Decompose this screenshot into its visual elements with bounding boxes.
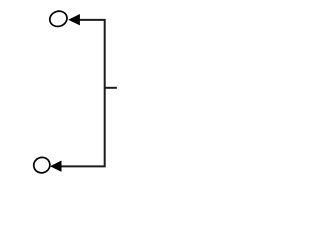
arrowhead top xyxy=(68,14,80,25)
node bottom ellipse xyxy=(32,155,52,175)
tick on vertical bus xyxy=(105,87,117,89)
node top ellipse xyxy=(48,9,69,29)
arrowhead bottom xyxy=(50,161,62,172)
wire top horizontal + right vertical bus + bottom horizontal xyxy=(61,20,104,167)
